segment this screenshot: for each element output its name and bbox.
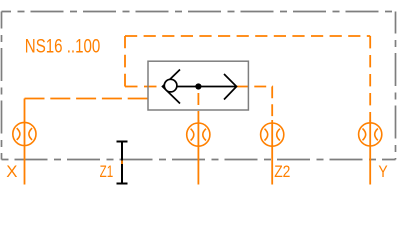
wire: Z2 port drop: [271, 120, 273, 185]
wire: X port drop: [24, 99, 26, 185]
port Z1 plug symbol: [117, 142, 128, 184]
check valve V1: seat: [163, 70, 181, 104]
valve envelope box: [148, 61, 248, 110]
flow arrow head: [224, 74, 237, 100]
wire: Y port drop: [369, 120, 371, 185]
port Z1 stub (orange tick): [121, 161, 123, 165]
port X symbol: [13, 122, 36, 145]
pilot wire: left riser: [124, 36, 126, 87]
middle port symbol (unlabeled): [187, 123, 210, 146]
pilot wire: valve outlet to Z2: [237, 87, 273, 123]
junction node: [195, 83, 201, 89]
svg-text:Y: Y: [378, 162, 387, 181]
pilot wire: X port branch to valve housing: [25, 98, 149, 100]
check valve V1: ball: [164, 79, 177, 92]
svg-text:NS16 ..100: NS16 ..100: [25, 36, 101, 58]
pilot wire: right riser to Y: [369, 36, 371, 122]
wire: middle port drop: [197, 120, 199, 185]
pilot wire: valve junction drop to middle port: [197, 87, 199, 122]
pilot wire: valve inlet from left riser: [125, 86, 163, 88]
check valve V1: flow line: [177, 86, 236, 88]
port Z2 symbol: [261, 123, 284, 146]
port Y symbol: [359, 123, 382, 146]
pilot wire: top run: [125, 35, 370, 37]
svg-text:X: X: [6, 162, 17, 181]
svg-text:Z2: Z2: [274, 162, 290, 181]
manifold block outline (phantom border): [2, 12, 396, 160]
svg-text:Z1: Z1: [100, 162, 114, 181]
